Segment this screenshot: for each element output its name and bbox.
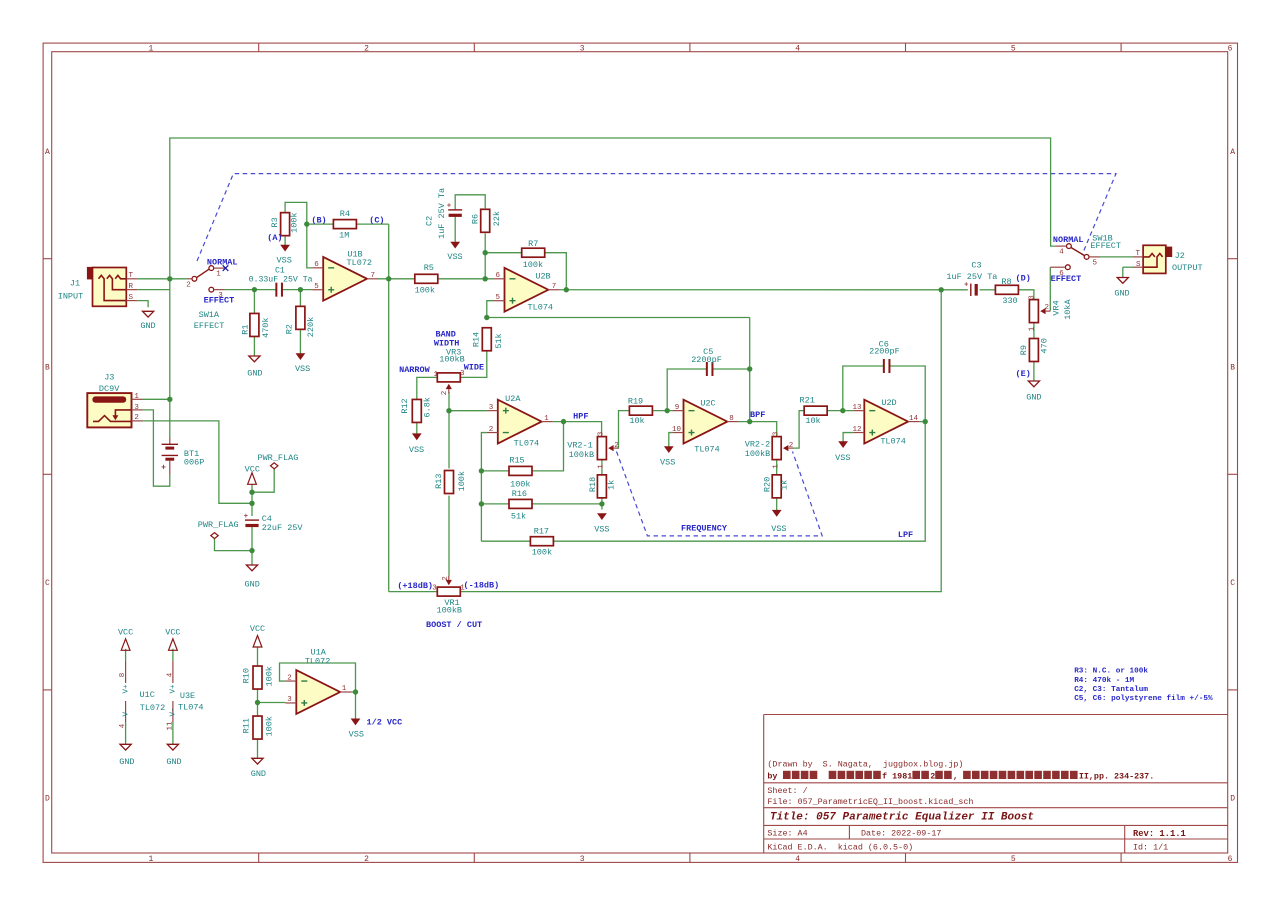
wire SW1A effect to C1: [224, 289, 276, 291]
svg-text:100k: 100k: [264, 716, 274, 736]
svg-text:Date: 2022-09-17: Date: 2022-09-17: [861, 829, 941, 839]
wire U2B out main line: [559, 289, 941, 291]
wire U1A out to vss: [355, 692, 357, 719]
svg-text:6: 6: [1228, 44, 1233, 53]
svg-text:10k: 10k: [629, 416, 644, 426]
svg-text:2: 2: [134, 414, 139, 422]
svg-text:Sheet: /: Sheet: /: [767, 786, 807, 796]
svg-text:2: 2: [614, 442, 619, 450]
svg-text:2: 2: [287, 674, 292, 682]
wire node to R7: [485, 252, 522, 254]
capacitor C4 polarized: [244, 513, 304, 533]
wire C4 to gnd: [251, 527, 253, 565]
vss arrow at U1A: [349, 719, 364, 740]
op-amp U2B: [494, 268, 560, 313]
svg-text:R16: R16: [512, 489, 527, 499]
svg-text:4: 4: [166, 672, 174, 677]
svg-text:3: 3: [489, 404, 494, 412]
svg-text:VCC: VCC: [165, 628, 180, 638]
wire VR2-1 to R18: [601, 460, 603, 475]
capacitor C1: [249, 267, 313, 297]
svg-text:6: 6: [496, 272, 501, 280]
wire U2D out: [919, 421, 925, 423]
svg-text:R15: R15: [509, 455, 524, 465]
wire C3 to R8: [980, 289, 995, 291]
ground at J2: [1114, 278, 1129, 299]
wire R21 to U2D-: [827, 410, 853, 412]
svg-text:R9: R9: [1019, 345, 1029, 355]
svg-text:0.33uF 25V Ta: 0.33uF 25V Ta: [249, 275, 313, 284]
svg-text:R5: R5: [424, 263, 434, 273]
title block sheet/file/title/rev fields: [767, 786, 1185, 853]
svg-text:V-: V-: [170, 707, 178, 716]
vss arrow at R18: [594, 514, 609, 535]
title block japanese comment line: [767, 771, 1154, 782]
svg-text:1M: 1M: [339, 231, 349, 241]
wire vertical to battery: [169, 279, 171, 438]
svg-text:VCC: VCC: [250, 624, 265, 634]
svg-text:NORMAL: NORMAL: [1053, 235, 1084, 245]
svg-text:VSS: VSS: [594, 524, 609, 534]
svg-text:10: 10: [672, 426, 682, 434]
wire R12 to vss: [416, 422, 418, 434]
svg-text:VSS: VSS: [771, 524, 786, 534]
wire node B to U1B-: [307, 224, 312, 268]
vcc symbol at C4: [245, 465, 260, 485]
svg-text:2: 2: [442, 576, 450, 581]
svg-text:(D): (D): [1016, 274, 1031, 284]
wire U2D+ to vss: [843, 433, 853, 442]
svg-text:U3E: U3E: [180, 691, 195, 701]
junction: [484, 315, 489, 320]
svg-text:1: 1: [148, 855, 153, 864]
wire J3 pin2 to C4 node: [143, 421, 253, 503]
wire VR3 wiper down: [448, 392, 450, 411]
svg-text:,: ,: [953, 771, 958, 781]
wire to R15: [481, 470, 509, 472]
svg-text:R20: R20: [763, 477, 773, 492]
svg-text:VCC: VCC: [118, 628, 133, 638]
dashed link SW1A-SW1B: [197, 174, 1116, 261]
ground at J1 sleeve: [140, 311, 155, 331]
svg-text:GND: GND: [1026, 392, 1041, 402]
resistor R9: [1019, 338, 1050, 361]
resistor R3: [270, 212, 300, 235]
svg-text:1: 1: [598, 464, 606, 469]
svg-text:GND: GND: [247, 368, 262, 378]
svg-text:R: R: [129, 283, 134, 291]
svg-text:R10: R10: [242, 668, 252, 683]
svg-text:1: 1: [1029, 326, 1037, 331]
wire U1A feedback: [280, 663, 356, 692]
svg-text:3: 3: [580, 855, 585, 864]
svg-text:J3: J3: [104, 373, 114, 383]
svg-text:4: 4: [1059, 249, 1064, 257]
wire SW1B effect to VR4 wiper: [1049, 267, 1051, 311]
svg-text:C2: C2: [424, 216, 434, 226]
title block: [764, 715, 1228, 854]
svg-text:(Drawn by S. Nagata, juggbox: (Drawn by S. Nagata, juggbox.blog.jp): [767, 760, 963, 770]
svg-text:1uF 25V Ta: 1uF 25V Ta: [946, 272, 997, 282]
op-amp U1A: [285, 648, 351, 714]
resistor R15: [509, 455, 532, 489]
resistor R18: [588, 475, 617, 498]
junction: [479, 501, 484, 506]
wire J1 tip to SW1A: [137, 278, 187, 280]
wire R1 top: [253, 290, 255, 313]
svg-text:6: 6: [314, 261, 319, 269]
svg-text:KiCad E.D.A. kicad (6.0.5-0): KiCad E.D.A. kicad (6.0.5-0): [767, 842, 913, 852]
svg-text:(C): (C): [369, 216, 384, 226]
potentiometer VR1: [432, 576, 465, 616]
svg-text:R4: 470k - 1M: R4: 470k - 1M: [1074, 677, 1134, 685]
svg-text:1: 1: [342, 685, 347, 693]
svg-text:5: 5: [314, 283, 319, 291]
svg-text:006P: 006P: [184, 458, 204, 468]
wire VR3 narrow to R12: [417, 377, 438, 399]
switch SW1A: [186, 266, 224, 331]
junction: [446, 408, 451, 413]
wire VCC to R10: [257, 647, 259, 666]
svg-text:4: 4: [795, 44, 800, 53]
wire R2 bottom to vss: [299, 330, 301, 354]
junction: [386, 276, 391, 281]
svg-text:GND: GND: [1114, 288, 1129, 298]
svg-text:EFFECT: EFFECT: [204, 295, 235, 305]
svg-text:2: 2: [441, 391, 449, 396]
svg-text:100kB: 100kB: [745, 449, 771, 459]
wire node C vertical: [388, 224, 390, 591]
wire node to U1A+: [258, 702, 286, 704]
svg-text:R3: N.C. or 100k: R3: N.C. or 100k: [1074, 668, 1148, 676]
wire VR1 pin1 to output node: [460, 290, 941, 592]
resistor R10: [242, 666, 275, 689]
svg-text:TL074: TL074: [178, 702, 204, 712]
svg-text:VR2-2: VR2-2: [745, 440, 771, 450]
svg-text:3: 3: [287, 696, 292, 704]
svg-text:(E): (E): [1016, 369, 1031, 379]
svg-text:3: 3: [134, 404, 139, 412]
svg-text:R11: R11: [242, 718, 252, 733]
wire VCC column: [251, 484, 253, 516]
junction: [167, 276, 172, 281]
wire R2 top: [299, 290, 301, 306]
wire R10 R11 node: [257, 689, 259, 717]
wire U2C+ to vss: [669, 433, 673, 447]
junction: [665, 408, 670, 413]
resistor R14: [471, 328, 504, 351]
svg-text:3: 3: [772, 431, 780, 436]
wire U2B+ down: [487, 301, 494, 318]
ground at R9: [1026, 381, 1041, 402]
svg-text:7: 7: [552, 283, 557, 291]
op-amp U2A: [487, 394, 553, 448]
svg-text:8: 8: [119, 673, 127, 678]
svg-text:TL072: TL072: [140, 703, 166, 713]
svg-text:9: 9: [675, 404, 680, 412]
resistor R16: [509, 489, 532, 521]
vss arrow at R3: [277, 245, 292, 265]
wire R15 to HPF: [532, 422, 564, 471]
svg-text:U2C: U2C: [700, 398, 715, 408]
wire R8 to VR4 node D: [1019, 290, 1034, 300]
svg-text:100kB: 100kB: [437, 605, 463, 615]
svg-text:(-18dB): (-18dB): [464, 580, 500, 590]
dashed link VR2-1-VR2-2 frequency gang: [617, 452, 823, 536]
wire R1 bottom to gnd: [253, 337, 255, 356]
wire BPF column vertical: [749, 318, 751, 422]
wire to R16: [481, 503, 509, 505]
wire R19 to U2C-: [652, 410, 672, 412]
svg-text:OUTPUT: OUTPUT: [1172, 263, 1203, 273]
vss arrow at U2D: [835, 442, 850, 463]
junction: [298, 287, 303, 292]
svg-text:NARROW: NARROW: [399, 365, 431, 375]
label BAND WIDTH: [434, 330, 460, 349]
svg-text:A: A: [1230, 148, 1235, 157]
svg-text:R2: R2: [285, 324, 295, 334]
wire R9 to gnd node E: [1033, 361, 1035, 381]
svg-text:51k: 51k: [494, 333, 504, 348]
svg-text:VSS: VSS: [660, 458, 675, 468]
svg-text:(B): (B): [311, 216, 326, 226]
svg-text:II,pp. 234-237.: II,pp. 234-237.: [1079, 771, 1154, 781]
wire R4 to node C: [356, 223, 388, 225]
svg-text:Rev: 1.1.1: Rev: 1.1.1: [1133, 829, 1186, 839]
wire C5 right: [712, 368, 749, 370]
svg-text:TL074: TL074: [694, 445, 720, 455]
svg-text:D: D: [1230, 795, 1235, 804]
svg-text:File: 057_ParametricEQ_II_boos: File: 057_ParametricEQ_II_boost.kicad_sc…: [767, 797, 973, 807]
power flag 2: [198, 520, 239, 538]
svg-text:U2A: U2A: [505, 394, 521, 404]
svg-text:R4: R4: [340, 209, 350, 219]
wire R17 to LPF: [553, 422, 925, 542]
wire node B to R4: [307, 223, 334, 225]
resistor R12: [400, 397, 432, 422]
wire U2C out BPF to VR2-2: [738, 422, 777, 437]
svg-text:R18: R18: [588, 477, 598, 492]
svg-text:C2, C3: Tantalum: C2, C3: Tantalum: [1074, 686, 1148, 694]
svg-text:INPUT: INPUT: [58, 291, 84, 301]
svg-text:+: +: [447, 203, 451, 211]
resistor R7: [522, 239, 545, 270]
wire J1 ring: [137, 289, 170, 291]
svg-text:470: 470: [1040, 338, 1050, 353]
svg-text:HPF: HPF: [573, 412, 588, 422]
resistor R19: [628, 397, 653, 427]
svg-text:V+: V+: [122, 684, 130, 694]
svg-text:R8: R8: [1001, 277, 1011, 287]
svg-text:2: 2: [186, 281, 191, 289]
svg-text:VSS: VSS: [835, 453, 850, 463]
svg-text:C1: C1: [275, 267, 285, 276]
svg-text:4: 4: [795, 855, 800, 864]
junction: [167, 397, 172, 402]
junction: [939, 287, 944, 292]
svg-text:2: 2: [789, 442, 794, 450]
wire R6 bottom: [484, 233, 486, 278]
ground at C4: [245, 565, 260, 589]
svg-text:6: 6: [1228, 855, 1233, 864]
svg-text:5: 5: [1093, 260, 1098, 268]
svg-text:51k: 51k: [511, 511, 526, 521]
svg-text:EFFECT: EFFECT: [1090, 241, 1121, 251]
wire U3E vcc stem: [172, 649, 174, 661]
svg-text:R13: R13: [434, 474, 444, 489]
svg-text:V-: V-: [122, 707, 130, 716]
wire R7 to U2B out: [545, 253, 567, 290]
svg-text:6.8k: 6.8k: [423, 397, 433, 417]
wire U3E gnd stem: [172, 722, 174, 744]
wire bypass loop: [170, 138, 1056, 279]
svg-text:R12: R12: [400, 398, 410, 413]
svg-text:BPF: BPF: [750, 410, 765, 420]
svg-text:U2D: U2D: [881, 398, 896, 408]
svg-text:+: +: [161, 464, 166, 473]
svg-text:C5, C6: polystyrene film +/-5%: C5, C6: polystyrene film +/-5%: [1074, 695, 1213, 703]
svg-text:S: S: [129, 294, 134, 302]
wire to R17: [481, 540, 530, 542]
svg-text:T: T: [129, 272, 134, 280]
svg-text:VR4: VR4: [1052, 300, 1062, 315]
resistor R5: [415, 263, 438, 296]
svg-text:GND: GND: [166, 757, 181, 767]
wire R14 to VR3 wide: [460, 350, 487, 377]
svg-text:EFFECT: EFFECT: [194, 321, 225, 331]
svg-text:DC9V: DC9V: [99, 384, 120, 394]
resistor R6: [471, 209, 503, 232]
svg-text:1: 1: [544, 415, 549, 423]
svg-text:Size: A4: Size: A4: [767, 829, 807, 839]
resistor R17: [530, 526, 553, 557]
connector J1 INPUT jack: [58, 267, 137, 306]
wire C2 to vss: [454, 216, 456, 242]
wire J1 sleeve to gnd: [137, 301, 148, 308]
wire C2 to R6 top: [455, 195, 485, 210]
svg-text:TL072: TL072: [347, 258, 373, 268]
svg-text:1: 1: [134, 393, 139, 401]
svg-text:1k: 1k: [779, 480, 789, 490]
svg-text:100k: 100k: [290, 212, 300, 232]
junction: [353, 689, 358, 694]
svg-text:D: D: [45, 795, 50, 804]
wire R20 to vss: [776, 499, 778, 511]
svg-text:100k: 100k: [532, 547, 552, 557]
svg-text:2: 2: [930, 771, 935, 781]
resistor R13: [434, 471, 467, 494]
svg-text:VCC: VCC: [245, 465, 260, 475]
vss arrow at R2: [295, 354, 310, 375]
junction: [479, 468, 484, 473]
wire pwr_flag2: [215, 539, 253, 551]
wire R3 top to node B: [285, 202, 307, 224]
junction: [249, 548, 254, 553]
junction: [255, 700, 260, 705]
wire C5 left: [667, 369, 707, 411]
potentiometer VR2-2: [745, 431, 794, 469]
svg-text:C3: C3: [971, 261, 981, 271]
svg-text:Id: 1/1: Id: 1/1: [1133, 842, 1168, 852]
vss arrow at C2: [447, 242, 462, 262]
svg-text:R7: R7: [528, 239, 538, 249]
wire U2A- column: [481, 433, 486, 542]
wire U1A out: [351, 691, 356, 693]
wire VR4 to R9: [1033, 322, 1035, 338]
svg-text:7: 7: [371, 272, 376, 280]
svg-text:3: 3: [580, 44, 585, 53]
svg-text:330: 330: [1002, 296, 1017, 306]
svg-text:5: 5: [1011, 44, 1016, 53]
svg-text:10k: 10k: [805, 416, 820, 426]
svg-text:1: 1: [772, 464, 780, 469]
junction: [747, 419, 752, 424]
svg-text:FREQUENCY: FREQUENCY: [681, 524, 728, 534]
svg-text:1uF 25V Ta: 1uF 25V Ta: [437, 188, 447, 239]
svg-text:NORMAL: NORMAL: [207, 257, 238, 267]
wire pwr_flag1: [252, 469, 274, 492]
junction: [561, 419, 566, 424]
resistor R21: [800, 396, 828, 427]
svg-text:+: +: [964, 281, 968, 289]
op-amp U1B: [312, 250, 378, 301]
op-amp U2C: [672, 398, 738, 454]
wire U2A out HPF to VR2-1: [553, 422, 602, 438]
svg-text:100k: 100k: [457, 471, 467, 491]
svg-text:(A): (A): [267, 233, 282, 243]
wire J2 sleeve to gnd: [1122, 267, 1124, 277]
resistor R2: [285, 306, 317, 337]
wire node to C3: [941, 289, 968, 291]
svg-text:100k: 100k: [415, 286, 435, 296]
svg-text:VSS: VSS: [295, 364, 310, 374]
junction: [599, 501, 604, 506]
wire R13 to VR1 wiper: [448, 496, 450, 576]
svg-text:TL074: TL074: [880, 437, 906, 447]
svg-text:C: C: [1230, 579, 1235, 588]
svg-text:R1: R1: [241, 324, 251, 334]
connector J2 OUTPUT jack: [1133, 245, 1203, 273]
wire R16 to R18 node: [532, 503, 602, 505]
power flag 1: [257, 453, 298, 469]
svg-text:1/2 VCC: 1/2 VCC: [367, 717, 403, 727]
capacitor C2 polarized: [424, 188, 462, 239]
svg-text:1: 1: [216, 271, 221, 279]
junction: [304, 221, 309, 226]
svg-text:GND: GND: [245, 579, 260, 589]
wire C6 left: [843, 366, 884, 411]
junction: [923, 419, 928, 424]
wire U1B out to R5: [378, 278, 415, 280]
svg-text:U2B: U2B: [535, 271, 550, 281]
svg-text:C: C: [45, 579, 50, 588]
svg-text:BOOST / CUT: BOOST / CUT: [426, 620, 482, 630]
svg-text:V+: V+: [170, 684, 178, 694]
svg-text:8: 8: [729, 415, 734, 423]
svg-text:R3: R3: [270, 217, 280, 227]
junction: [249, 490, 254, 495]
capacitor C6: [869, 340, 900, 373]
wire U1C gnd stem: [125, 722, 127, 744]
wire J2 sleeve: [1123, 266, 1133, 268]
vss arrow at R12: [409, 434, 424, 455]
svg-text:SW1A: SW1A: [199, 310, 220, 320]
svg-text:VSS: VSS: [409, 445, 424, 455]
wire VR2-2 wiper to R21: [793, 411, 804, 448]
svg-text:1: 1: [434, 371, 439, 379]
svg-text:J2: J2: [1175, 251, 1185, 261]
svg-text:EFFECT: EFFECT: [1051, 274, 1082, 284]
